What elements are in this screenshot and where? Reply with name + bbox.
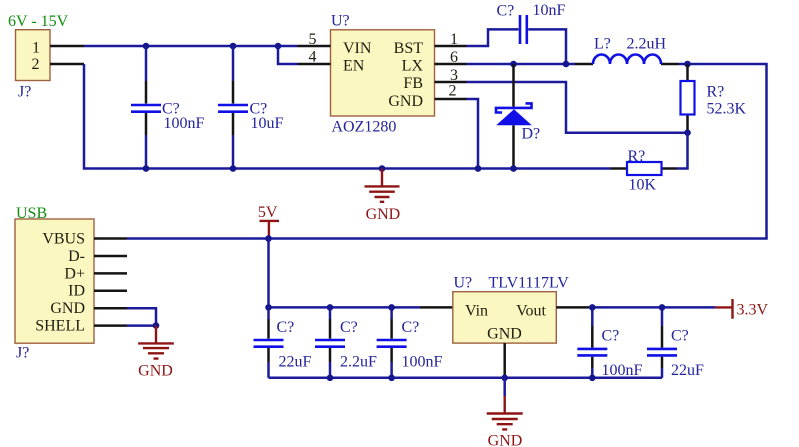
svg-text:5V: 5V (258, 204, 278, 221)
svg-text:C?: C? (277, 319, 295, 336)
pin stub BST (1) (435, 45, 467, 48)
svg-text:VBUS: VBUS (42, 231, 85, 248)
svg-text:R?: R? (628, 148, 646, 165)
capacitor C? 10uF leads (232, 46, 235, 81)
pin stub GND (94, 307, 127, 310)
pin stub VBUS (94, 237, 127, 240)
pin stub LX (6) (435, 63, 467, 66)
junction ground rail at diode (510, 165, 517, 172)
svg-text:GND: GND (388, 93, 423, 110)
diode D? triangle (496, 109, 532, 125)
resistor R? 10K body (627, 162, 662, 175)
wire input ground from J? pin2 (84, 64, 611, 169)
svg-text:Vin: Vin (465, 303, 488, 320)
svg-text:AOZ1280: AOZ1280 (332, 119, 397, 136)
pin stub GND of TLV (503, 343, 506, 378)
wire ldo bottom ground rail (269, 377, 663, 380)
ground symbol GND (top) (365, 169, 400, 202)
pin stub GND (2) (435, 98, 467, 101)
wire VIN rail (84, 45, 298, 48)
wire GND pin of U? to ground rail (467, 99, 479, 169)
svg-text:TLV1117LV: TLV1117LV (489, 275, 570, 292)
svg-text:GND: GND (138, 363, 173, 380)
wire TLV ground drop (503, 378, 506, 396)
svg-text:D-: D- (68, 248, 85, 265)
svg-text:L?: L? (594, 36, 611, 53)
connector J? (power input) body (16, 30, 51, 81)
svg-text:SHELL: SHELL (35, 318, 85, 335)
svg-text:BST: BST (394, 40, 424, 57)
wire LX rail (467, 63, 576, 66)
pin stub Vin of U? TLV1117LV (420, 306, 453, 309)
svg-text:Vout: Vout (516, 303, 546, 320)
capacitor C? 100nF ldo-out plates (577, 349, 607, 356)
svg-text:C?: C? (671, 328, 689, 345)
ground symbol GND (TLV) (487, 396, 523, 429)
wire buck output to 5V rail (127, 64, 767, 239)
capacitor C? 100nF ldo-in leads (390, 307, 393, 319)
junction shell node (153, 322, 160, 329)
wire BST to bootstrap cap left (467, 29, 519, 46)
inductor L? humps (593, 55, 661, 65)
svg-text:U?: U? (331, 13, 350, 30)
junction bottom rail at C 2.2uF (327, 375, 334, 382)
pin stub ID (94, 290, 127, 293)
svg-text:10uF: 10uF (251, 115, 284, 132)
svg-text:D?: D? (522, 126, 541, 143)
junction ground rail at U? GND (475, 165, 482, 172)
capacitor C? 22uF ldo-out plates (647, 349, 677, 356)
svg-text:C?: C? (602, 328, 620, 345)
resistor R? 52.3K pins (686, 64, 689, 133)
ground symbol GND (USB) (138, 326, 174, 359)
junction LX at bootstrap return (563, 61, 570, 68)
wire FB node down to R? 10K (677, 133, 688, 169)
junction 5V rail (265, 235, 272, 242)
svg-text:3.3V: 3.3V (737, 302, 769, 319)
capacitor C? 10uF plates (218, 105, 248, 112)
capacitor C? 22uF leads (267, 307, 270, 319)
diode D? schottky cathode bar (496, 103, 532, 112)
capacitor C? 2.2uF plates (315, 340, 345, 347)
svg-text:EN: EN (343, 58, 365, 75)
svg-text:FB: FB (403, 75, 423, 92)
wire bootstrap cap right to LX node (528, 29, 566, 64)
pin stub EN (4) (298, 63, 331, 66)
wire FB net (467, 82, 688, 133)
pin stub Vout of TLV (556, 306, 589, 309)
junction input rail at C 22uF (265, 304, 272, 311)
capacitor C? 100nF input leads (145, 46, 148, 81)
inductor L? pins (575, 63, 679, 66)
pin stub FB (3) (435, 81, 467, 84)
svg-text:C?: C? (402, 319, 420, 336)
svg-text:GND: GND (50, 300, 85, 317)
resistor R? 10K pins (611, 167, 678, 170)
svg-text:10nF: 10nF (533, 2, 566, 19)
svg-text:VIN: VIN (343, 40, 372, 57)
junction LX at diode (510, 61, 517, 68)
svg-text:2: 2 (449, 83, 457, 100)
junction Vout rail at C 22uF (659, 304, 666, 311)
power symbol 5V (260, 221, 280, 239)
pin stub D+ (94, 272, 127, 275)
svg-text:2.2uH: 2.2uH (627, 36, 667, 53)
capacitor C? 100nF ldo-out leads (591, 307, 594, 326)
svg-text:D+: D+ (64, 265, 85, 282)
wire EN branch (278, 46, 298, 64)
svg-text:U?: U? (454, 275, 473, 292)
svg-text:22uF: 22uF (279, 354, 312, 371)
junction on ground rail at C 100nF (143, 165, 150, 172)
junction on ground rail at C 10uF (230, 165, 237, 172)
junction Vout rail at C 100nF (589, 304, 596, 311)
svg-text:GND: GND (487, 326, 522, 343)
wire Vout rail to 3.3V (589, 306, 715, 309)
junction input rail at C 2.2uF (327, 304, 334, 311)
junction FB node (684, 129, 691, 136)
junction on VIN rail at EN branch (275, 43, 282, 50)
junction ground rail at GND symbol (379, 165, 386, 172)
svg-text:100nF: 100nF (602, 362, 643, 379)
svg-text:ID: ID (68, 283, 85, 300)
svg-text:GND: GND (488, 433, 523, 447)
junction on VIN rail at C 100nF (143, 43, 150, 50)
svg-text:100nF: 100nF (402, 354, 443, 371)
pin stub D- (94, 255, 127, 258)
capacitor C? 2.2uF leads (329, 307, 332, 319)
wire USB GND to shell (127, 308, 156, 325)
svg-text:C?: C? (340, 319, 358, 336)
svg-text:100nF: 100nF (164, 115, 205, 132)
capacitor C? 22uF plates (254, 340, 284, 347)
junction bottom rail at TLV GND (501, 375, 508, 382)
junction output node at L? and R? (684, 61, 691, 68)
svg-text:2: 2 (32, 56, 40, 73)
diode D? leads (512, 64, 515, 169)
junction input rail at C 100nF (388, 304, 395, 311)
junction on VIN rail at C 10uF (230, 43, 237, 50)
svg-text:J?: J? (16, 345, 29, 362)
capacitor C? 22uF ldo-out leads (661, 307, 664, 326)
junction bottom rail at C 100nF (388, 375, 395, 382)
pin 2 stub of J? (50, 63, 84, 66)
svg-text:J?: J? (18, 84, 31, 101)
svg-text:2.2uF: 2.2uF (340, 354, 377, 371)
capacitor C? 10nF bootstrap plates (520, 15, 527, 44)
op-amp U? TLV1117LV body (453, 292, 557, 343)
resistor R? 52.3K body (681, 81, 695, 115)
pin 1 stub of J? (50, 45, 84, 48)
svg-text:GND: GND (366, 206, 401, 223)
svg-text:6V - 15V: 6V - 15V (8, 13, 69, 30)
wire 5V drop to LDO input rail (269, 239, 421, 308)
svg-text:LX: LX (402, 58, 424, 75)
junction bottom rail at ldo-out 100nF (589, 375, 596, 382)
svg-text:1: 1 (32, 40, 40, 57)
op-amp U? AOZ1280 body (331, 30, 435, 116)
capacitor C? 100nF ldo-in plates (377, 340, 407, 347)
power symbol 3.3V (715, 299, 733, 319)
connector J? USB body (15, 219, 94, 343)
svg-text:52.3K: 52.3K (707, 101, 747, 118)
wire USB SHELL (127, 324, 156, 327)
svg-text:R?: R? (707, 84, 725, 101)
pin stub VIN (5) (298, 45, 331, 48)
svg-text:C?: C? (497, 3, 515, 20)
pin stub SHELL (94, 324, 127, 327)
svg-text:22uF: 22uF (671, 362, 704, 379)
svg-text:10K: 10K (629, 177, 657, 194)
capacitor C? 100nF input plates (131, 105, 161, 112)
